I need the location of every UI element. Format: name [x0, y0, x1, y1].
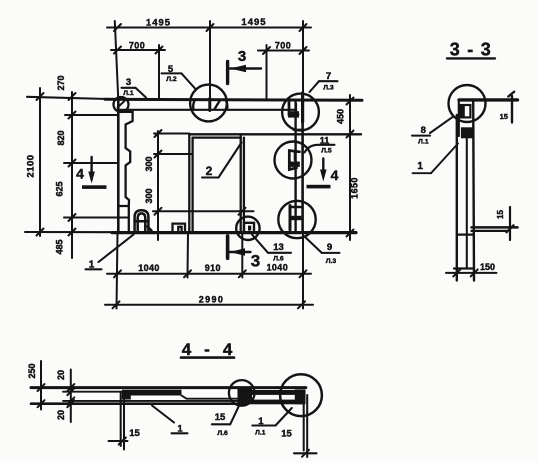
- svg-text:15: 15: [129, 428, 140, 439]
- extension line left bottom: [117, 233, 118, 309]
- opening extension lines bottom: [187, 233, 190, 278]
- svg-text:450: 450: [336, 109, 346, 124]
- section 4-4 dim 250: [38, 361, 45, 410]
- section 3-3 wall lines: [456, 115, 458, 281]
- svg-text:8: 8: [421, 125, 426, 136]
- right edge rung: [294, 129, 305, 131]
- panel bottom edge: [25, 231, 115, 233]
- dim line 1495+1495 top: [107, 24, 311, 31]
- extension line right top: [302, 21, 304, 99]
- corner angle detail right in circle: [244, 223, 254, 231]
- opening right edge: [240, 134, 242, 232]
- svg-text:300: 300: [144, 156, 154, 171]
- svg-text:3-3: 3-3: [450, 40, 499, 60]
- svg-text:1495: 1495: [146, 18, 171, 29]
- lifting loop arch: [135, 210, 152, 230]
- svg-text:300: 300: [144, 188, 154, 203]
- svg-text:Л.6: Л.6: [273, 255, 284, 262]
- section 3-3 bottom and dim 150: [446, 269, 497, 277]
- section marker 3 bottom: [228, 236, 251, 258]
- svg-text:485: 485: [55, 239, 65, 254]
- callout 3/L.1: [122, 77, 147, 98]
- svg-text:700: 700: [129, 41, 145, 51]
- panel top inner edge: [120, 109, 296, 111]
- opening top edge and tick line to right column: [189, 133, 361, 135]
- svg-text:625: 625: [55, 181, 65, 196]
- svg-text:820: 820: [56, 130, 66, 145]
- section 3-3 callout 8/L.1: [412, 117, 453, 146]
- detail circle right bottom: [278, 201, 315, 238]
- section 3-3 weld blob: [461, 127, 474, 138]
- svg-text:4-4: 4-4: [182, 340, 246, 359]
- svg-text:Л.5: Л.5: [321, 148, 332, 155]
- svg-text:1: 1: [417, 161, 423, 172]
- svg-text:2100: 2100: [26, 154, 37, 177]
- extension line mid top: [209, 21, 211, 100]
- svg-text:15: 15: [500, 112, 508, 121]
- section 3-3 embed plate: [460, 105, 471, 117]
- extension line 700L: [158, 45, 160, 99]
- callout 13/L.6: [252, 235, 291, 263]
- leader and label 1 bottom left: [86, 235, 134, 271]
- svg-text:15: 15: [215, 412, 226, 423]
- svg-text:3: 3: [251, 252, 260, 271]
- section 4-4 dim 20/20: [67, 370, 74, 423]
- section 4-4 plate end step: [122, 395, 131, 400]
- section 4-4 plate top line: [63, 391, 123, 393]
- dim column right 450/1650: [347, 95, 354, 240]
- dim line 700 right: [258, 47, 309, 54]
- panel top edge: [27, 97, 108, 99]
- opening left edge: [188, 134, 190, 232]
- svg-text:1495: 1495: [241, 17, 266, 28]
- section 3-3 callout 1: [413, 144, 458, 174]
- svg-text:Л.3: Л.3: [323, 85, 334, 92]
- dim column 300/300: [153, 130, 254, 240]
- svg-text:20: 20: [56, 410, 66, 420]
- extension line left top: [115, 21, 118, 98]
- section 4-4 detail circle big: [280, 374, 322, 416]
- section marker 4 right: [307, 159, 331, 189]
- dim line 2990: [105, 301, 313, 308]
- section 4-4 detail circle small: [229, 380, 255, 406]
- dim column left 270/820/625/485: [64, 92, 128, 258]
- section 4-4 channel embed: [238, 389, 306, 405]
- callout 7/L.3: [310, 71, 338, 92]
- panel left inner profile: [118, 112, 132, 232]
- panel right edge line B: [301, 99, 304, 233]
- svg-text:Л.6: Л.6: [217, 430, 228, 437]
- svg-text:250: 250: [27, 363, 37, 378]
- corner angle detail left: [173, 224, 186, 231]
- svg-text:Л.1: Л.1: [418, 139, 429, 146]
- panel right edge line A: [294, 100, 296, 232]
- svg-text:Л.2: Л.2: [166, 76, 177, 83]
- leader and label 2: [202, 143, 242, 179]
- callout 9/L.3: [306, 238, 340, 265]
- svg-text:1650: 1650: [350, 177, 360, 199]
- section 4-4 lower plate line: [63, 400, 247, 402]
- section 4-4 step: [182, 396, 243, 399]
- section 4-4 slab bottom line: [31, 402, 247, 405]
- callout 11/L.5: [305, 136, 335, 155]
- section 3-3 ledge: [472, 226, 518, 229]
- svg-text:150: 150: [480, 262, 495, 272]
- callout 5/L.2: [162, 64, 196, 89]
- section marker 4 left: [82, 157, 107, 189]
- svg-text:13: 13: [273, 242, 284, 253]
- svg-text:1040: 1040: [138, 263, 160, 273]
- svg-text:910: 910: [205, 263, 221, 273]
- section 4-4 slab top line: [31, 386, 306, 389]
- panel left outer edge: [117, 97, 120, 233]
- detail circle top left: [114, 97, 129, 112]
- detail circle right top: [282, 94, 319, 131]
- dim line 1040/910/1040: [107, 270, 311, 277]
- svg-text:2990: 2990: [199, 295, 225, 305]
- dim line 700 left: [111, 47, 165, 54]
- svg-text:3: 3: [238, 48, 246, 65]
- section 4-4 right dim 15: [294, 395, 317, 457]
- section marker 3 top: [228, 62, 261, 84]
- svg-text:Л.1: Л.1: [123, 90, 134, 97]
- section 4-4 left dim 15: [109, 392, 128, 450]
- svg-text:15: 15: [496, 210, 505, 219]
- svg-text:Л.1: Л.1: [255, 430, 266, 437]
- svg-text:4: 4: [76, 166, 84, 182]
- svg-text:700: 700: [275, 41, 291, 51]
- extension line 700R: [266, 45, 268, 100]
- detail circle top center: [190, 85, 227, 122]
- svg-text:20: 20: [56, 370, 66, 380]
- section 3-3 dim 15: [509, 207, 511, 240]
- svg-text:9: 9: [327, 242, 332, 253]
- svg-text:2: 2: [206, 164, 213, 178]
- svg-text:1040: 1040: [266, 262, 288, 272]
- section 4-4 callout 1/L.1: [252, 408, 291, 437]
- svg-text:Л.3: Л.3: [326, 258, 337, 265]
- section 3-3 top flange: [459, 98, 518, 101]
- svg-text:4: 4: [331, 167, 339, 183]
- detail circle opening corner: [236, 217, 259, 240]
- detail circle right middle: [275, 142, 312, 179]
- extension line right bottom: [302, 233, 304, 309]
- dim column 2100: [37, 88, 44, 236]
- section 4-4 callout 15/L.6: [212, 393, 246, 438]
- svg-text:3: 3: [126, 77, 131, 88]
- section 4-4 callout 1 left: [152, 406, 188, 435]
- section 4-4 upper embed plate: [122, 390, 182, 396]
- section 3-3 detail circle: [449, 85, 486, 122]
- svg-text:15: 15: [281, 429, 292, 440]
- svg-text:270: 270: [56, 75, 66, 90]
